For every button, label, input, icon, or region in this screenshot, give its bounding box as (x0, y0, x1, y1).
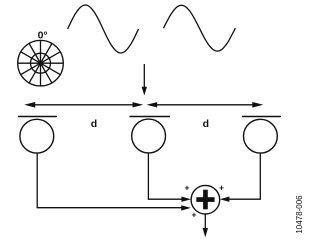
svg-text:d: d (203, 118, 209, 130)
svg-text:+: + (185, 183, 190, 193)
svg-text:+: + (192, 210, 197, 220)
svg-text:0°: 0° (38, 30, 48, 42)
svg-text:+: + (219, 183, 224, 193)
svg-text:d: d (91, 118, 97, 130)
svg-text:10478-006: 10478-006 (295, 195, 304, 234)
